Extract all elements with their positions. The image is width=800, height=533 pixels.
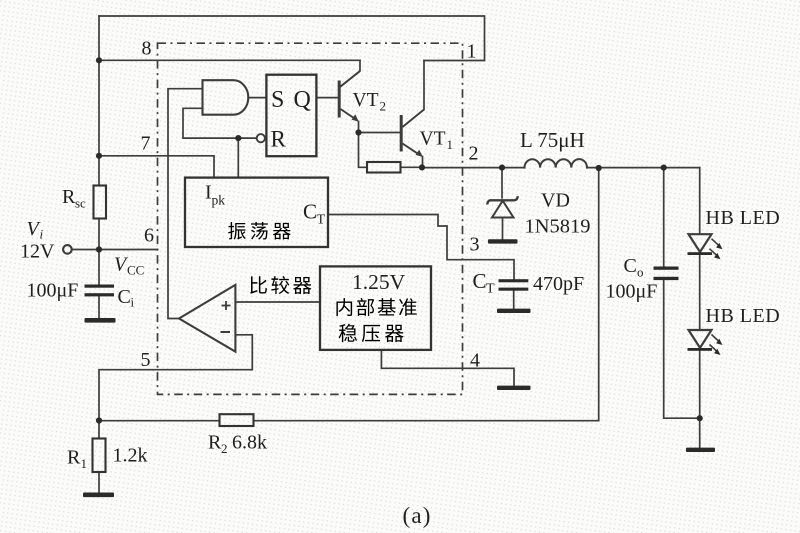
wire comparator minus input to pin 5 feedback <box>99 335 252 421</box>
wire top supply rail <box>99 16 485 61</box>
svg-text:C: C <box>303 200 317 224</box>
1.25V reference block <box>320 266 431 350</box>
ground LED return <box>686 448 715 452</box>
svg-text:VT: VT <box>353 90 379 111</box>
svg-text:5: 5 <box>141 349 151 371</box>
svg-text:1.2k: 1.2k <box>113 445 148 467</box>
wire comparator plus input from reference <box>235 301 320 303</box>
wire VT2 emitter node down to base resistor <box>359 133 368 168</box>
label comparator (bijiaoqi) <box>250 276 267 294</box>
svg-text:VD: VD <box>541 190 570 212</box>
svg-text:1: 1 <box>467 41 477 63</box>
capacitor Ci 100uF <box>85 285 115 297</box>
oscillator block <box>185 178 328 247</box>
wire LED2 to return node and ground <box>699 351 701 448</box>
wire inductor to output node <box>587 167 700 169</box>
svg-text:T: T <box>486 282 495 297</box>
svg-text:Q: Q <box>294 87 311 113</box>
svg-text:o: o <box>637 265 644 280</box>
svg-text:R: R <box>208 432 222 454</box>
capacitor Co 100uF <box>654 267 679 281</box>
base resistor of VT1 <box>367 162 401 173</box>
diode VD 1N5819 <box>487 196 517 217</box>
label regulator (wenyaqi) <box>339 324 357 342</box>
wire Rsc to VCC node <box>98 219 100 285</box>
svg-text:100μF: 100μF <box>27 280 79 302</box>
wire R junction down to Ipk block <box>237 138 239 178</box>
wire timing capacitor CT to ground <box>513 291 515 309</box>
inductor L 75uH <box>525 159 587 167</box>
ground pin 4 <box>497 386 531 390</box>
wire oscillator CT output to pin 3 <box>328 215 514 280</box>
flip-flop U2 (S R latch) <box>266 75 316 157</box>
svg-text:i: i <box>40 227 44 242</box>
LED HB LED 2 <box>688 330 723 355</box>
wire output capacitor Co branch <box>663 168 665 267</box>
wire base resistor to VT1 emitter node <box>401 166 423 168</box>
wire node to resistor R1 <box>98 420 100 438</box>
comparator <box>179 285 235 352</box>
wire pin 7 into Ipk block <box>99 156 214 178</box>
ground under CT <box>497 309 531 313</box>
AND gate U1 <box>203 80 249 115</box>
ground under diode VD <box>488 239 518 243</box>
svg-text:pk: pk <box>212 193 226 208</box>
svg-text:R: R <box>271 127 287 152</box>
svg-text:2: 2 <box>469 143 479 165</box>
transistor VT2 <box>339 71 360 122</box>
comparator minus sign <box>221 331 231 333</box>
wire VD diode cathode <box>501 168 503 198</box>
wire capacitor Ci to ground <box>98 297 100 319</box>
svg-text:R: R <box>67 447 81 469</box>
svg-text:C: C <box>624 255 637 277</box>
svg-text:HB LED: HB LED <box>706 305 781 327</box>
resistor R1 <box>93 439 106 473</box>
svg-text:2: 2 <box>221 441 228 456</box>
wire pin 8 to VT2 collector <box>99 59 360 61</box>
wire flip-flop Q output to VT2 base <box>316 97 338 99</box>
junction nodes <box>96 57 703 423</box>
svg-text:CC: CC <box>127 263 144 278</box>
svg-text:6.8k: 6.8k <box>232 432 267 454</box>
svg-text:470pF: 470pF <box>533 273 584 295</box>
wire VT1 collector to pin 1 <box>423 61 425 110</box>
wire AND gate top input from comparator <box>168 89 203 319</box>
ground under Ci <box>85 318 116 323</box>
IC package dashed boundary <box>158 43 463 394</box>
wire reference block to pin 4 ground <box>381 350 514 386</box>
wire feedback from switch node down <box>254 168 599 421</box>
svg-text:12V: 12V <box>20 241 55 263</box>
svg-text:sc: sc <box>75 196 86 211</box>
label internal reference (neibu jizhun) <box>336 298 352 316</box>
svg-text:C: C <box>473 269 487 293</box>
comparator plus sign <box>222 301 231 310</box>
wire left supply rail <box>98 16 100 186</box>
svg-text:1: 1 <box>81 456 88 471</box>
transistor VT1 <box>401 110 424 158</box>
svg-text:3: 3 <box>470 234 480 256</box>
wire LED string top <box>699 168 701 235</box>
svg-text:S: S <box>271 87 284 113</box>
svg-text:2: 2 <box>380 99 387 114</box>
LED HB LED 1 <box>688 234 723 259</box>
svg-text:100μF: 100μF <box>606 281 658 303</box>
svg-text:8: 8 <box>142 38 152 60</box>
svg-text:i: i <box>131 295 135 310</box>
wire Co bottom to LED return node <box>664 280 700 418</box>
svg-text:7: 7 <box>141 133 151 155</box>
svg-text:1N5819: 1N5819 <box>525 216 591 238</box>
wire pin 2 switch output line <box>422 167 525 169</box>
wire VT2 collector <box>341 60 361 86</box>
wire AND gate bottom input <box>183 108 256 138</box>
R input inverting bubble <box>257 134 265 142</box>
wire AND gate output to S input <box>248 97 266 99</box>
svg-text:6: 6 <box>144 225 154 247</box>
resistor R2 <box>220 414 254 426</box>
svg-text:1: 1 <box>447 137 454 152</box>
wire between LED1 and LED2 <box>699 255 701 330</box>
svg-text:1.25V: 1.25V <box>352 270 406 294</box>
svg-text:4: 4 <box>470 350 480 372</box>
svg-text:HB LED: HB LED <box>706 207 781 229</box>
svg-text:(a): (a) <box>403 503 432 528</box>
wire pin 6 VCC input <box>72 249 158 251</box>
wire R1 to ground <box>98 472 100 493</box>
label oscillator (zhendangqi) <box>228 222 246 240</box>
wire R2 to feedback divider node <box>99 420 220 422</box>
svg-text:VT: VT <box>420 129 446 150</box>
wire VT1 emitter down <box>422 157 424 168</box>
input terminal circle <box>63 245 72 254</box>
svg-text:L 75μH: L 75μH <box>520 128 585 152</box>
ground under R1 <box>83 493 114 498</box>
resistor Rsc <box>94 186 107 219</box>
wire VD diode anode to ground <box>502 218 504 240</box>
capacitor CT 470pF <box>499 279 529 291</box>
wire VT2 emitter to node and VT1 base <box>358 122 360 133</box>
svg-text:C: C <box>118 286 131 308</box>
svg-text:R: R <box>62 186 76 208</box>
svg-text:T: T <box>317 213 326 228</box>
